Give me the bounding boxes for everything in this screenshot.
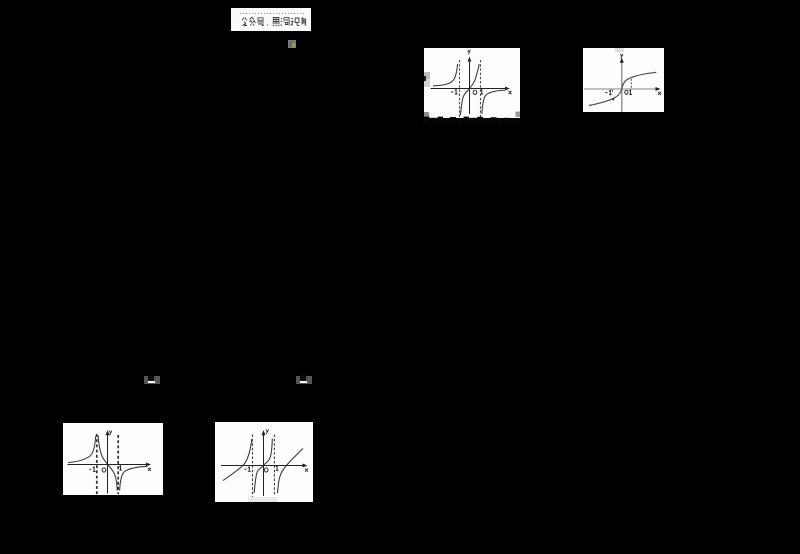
label O (C) (102, 468, 106, 472)
title box 公众号黑洞视角 (231, 8, 311, 31)
pseudo glyph 黑 (272, 18, 279, 27)
dashed asymptote x=1 (C) (117, 435, 119, 494)
pseudo glyph 视 (291, 18, 300, 26)
label O (B) (625, 90, 628, 94)
dashed asymptote x=1 (A) (480, 60, 482, 118)
dashed tick x=1 up to curve (B) (630, 79, 632, 89)
label y (C) (109, 431, 112, 436)
label -1 (B) (605, 90, 612, 94)
small icon below title (288, 40, 296, 48)
curve A left branch (433, 64, 458, 86)
curve B (589, 72, 656, 105)
curve C mid branch (98, 436, 117, 491)
fullwidth comma (266, 24, 269, 27)
white panel B (583, 48, 664, 112)
label y (D) (266, 429, 269, 434)
label 1 (D) (276, 466, 279, 470)
pseudo glyph 公 (242, 18, 247, 26)
dashed asymptote x=1 (D) (273, 435, 275, 497)
label -1 (C) (89, 467, 95, 471)
x axis D (221, 465, 305, 467)
graph D: tan-like option graph (215, 422, 313, 502)
curve D middle branch (254, 439, 272, 494)
label x (D) (305, 469, 308, 472)
label O (D) (264, 468, 268, 472)
graph A: y = x/(1-x^2) option graph (424, 48, 520, 118)
formula box left (144, 376, 160, 384)
formula box right (296, 376, 312, 384)
gray square bottom-right A (516, 112, 521, 118)
arrow on curve B (611, 97, 615, 101)
label -1 (A) (451, 90, 457, 95)
label y (A) (468, 50, 471, 55)
label -1 (D) (244, 467, 250, 471)
pseudo glyph 洞 (281, 18, 290, 26)
gray block left edge A (424, 72, 430, 87)
x axis C (68, 464, 149, 466)
pseudo glyph 号 (257, 18, 264, 26)
white panel A (424, 48, 520, 118)
label x (C) (148, 468, 151, 471)
label y (B) (620, 54, 623, 59)
label 1 (C) (119, 466, 122, 470)
gray square bottom-left A (424, 112, 429, 118)
label 1 (B) (629, 90, 632, 94)
gray tab top B (615, 48, 624, 52)
dashed asymptote x=-1 (A) (459, 60, 461, 118)
graph B: cube-root style option graph (583, 48, 664, 112)
y axis A (469, 59, 471, 114)
tick at x=-1 (B) (611, 90, 614, 92)
pseudo glyph 众 (249, 17, 255, 25)
gray strip bottom D (248, 497, 277, 502)
dashed asymptote x=-1 (C) (96, 434, 98, 495)
white panel C (63, 423, 163, 495)
white panel D (215, 422, 313, 502)
y axis C (107, 433, 109, 494)
curve A middle branch (460, 64, 479, 115)
curve D right branch (278, 449, 304, 494)
y axis B (621, 60, 623, 112)
label 1 (A) (481, 89, 484, 94)
dotted rule (240, 13, 306, 15)
graph C: spikes up at -1 down at 1 option graph (63, 423, 163, 495)
caption glyph row under graph A (423, 115, 521, 124)
curve C right branch (120, 466, 147, 490)
curve D left branch (223, 439, 252, 481)
curve A right branch (482, 90, 506, 114)
y axis D (263, 433, 265, 497)
label x (B) (658, 92, 661, 95)
x axis B (584, 88, 659, 90)
label O (A) (473, 90, 477, 94)
x axis A (431, 88, 509, 90)
dashed asymptote x=-1 (D) (252, 435, 254, 498)
curve C left branch (68, 436, 96, 463)
pseudo glyph 角 (301, 17, 305, 25)
label x (A) (509, 91, 512, 94)
